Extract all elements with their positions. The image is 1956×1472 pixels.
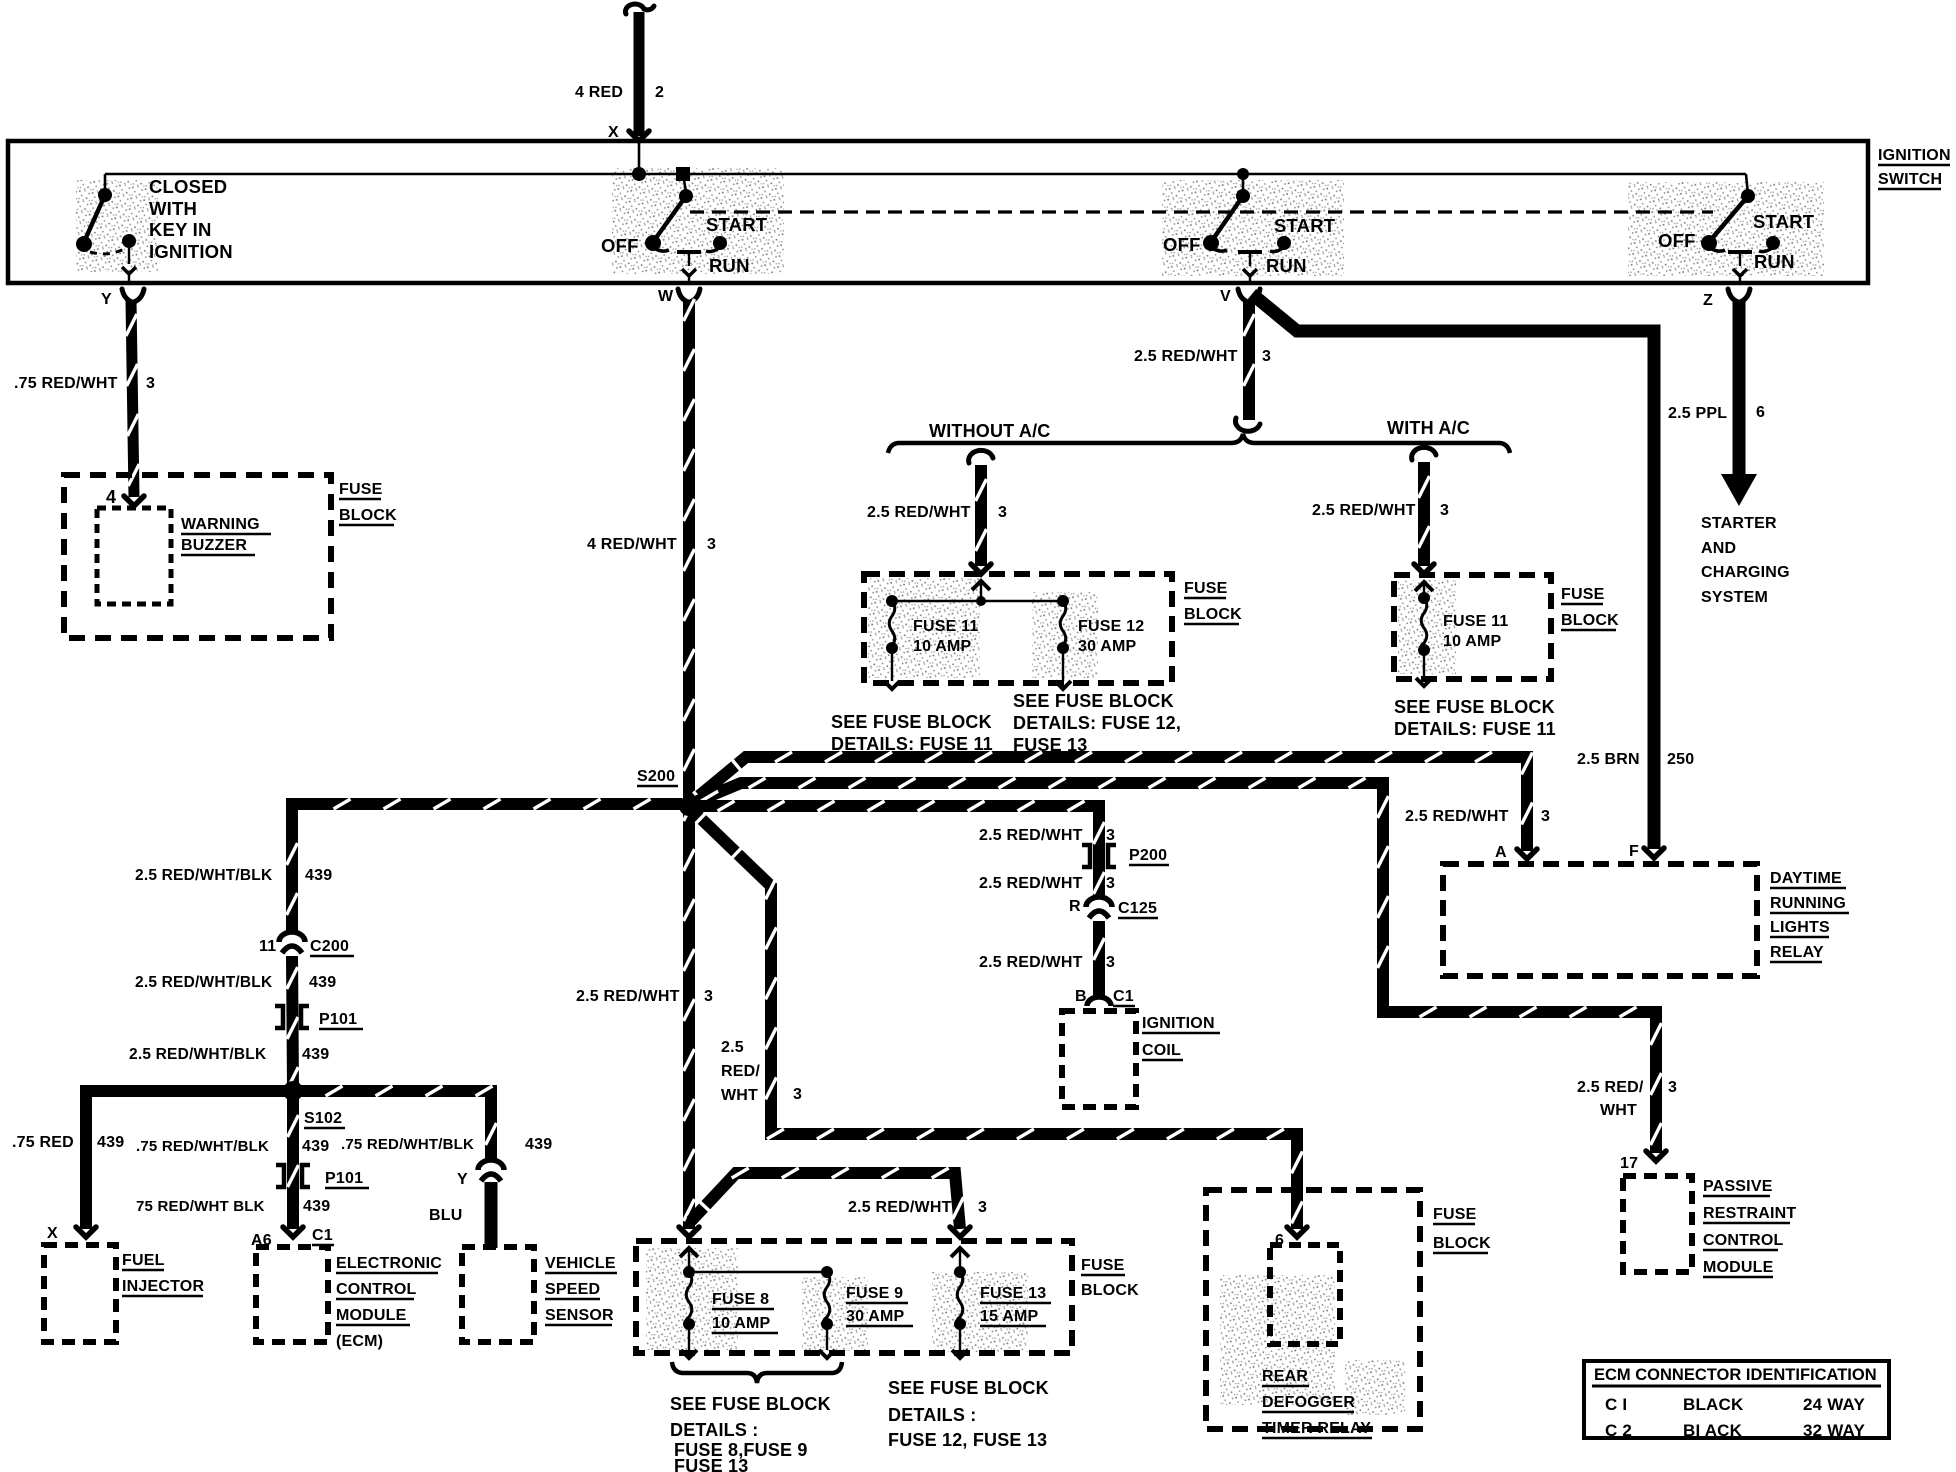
svg-text:2.5 RED/WHT/BLK: 2.5 RED/WHT/BLK [129,1046,267,1063]
svg-text:3: 3 [978,1199,987,1216]
svg-text:BLU: BLU [429,1207,462,1224]
ignition switch wafer: pivot [1236,189,1250,203]
contact RUN output [1238,250,1262,254]
svg-text:X: X [608,124,619,141]
wire 2.5 RED/WHT without A/C to fuse block [969,450,993,463]
underbrace fuses 8 and 9 [672,1362,842,1383]
svg-text:FUSE: FUSE [1081,1257,1125,1274]
switch arm to OFF [653,196,686,242]
svg-text:2.5 RED/WHT: 2.5 RED/WHT [1405,808,1509,825]
svg-text:.75 RED: .75 RED [12,1134,74,1151]
svg-text:439: 439 [302,1138,329,1155]
wire BLU to vehicle speed sensor [485,1182,498,1248]
ignition coil box [1062,1011,1136,1107]
svg-text:CONTROL: CONTROL [1703,1232,1784,1249]
svg-text:TIMER RELAY: TIMER RELAY [1262,1420,1371,1437]
connector C125 pin R [1086,897,1112,907]
svg-text:10 AMP: 10 AMP [1443,633,1502,650]
svg-text:DETAILS :: DETAILS : [670,1420,758,1440]
wire 4 RED (battery feed) into X [634,12,645,136]
svg-text:WHT: WHT [1600,1102,1637,1119]
svg-text:BLACK: BLACK [1683,1395,1744,1414]
svg-text:4: 4 [106,487,116,507]
svg-text:IGNITION: IGNITION [149,241,233,262]
terminal W [678,289,700,302]
switch arm to OFF [1709,196,1748,242]
svg-text:Y: Y [457,1171,468,1188]
svg-text:SEE FUSE BLOCK: SEE FUSE BLOCK [888,1378,1049,1398]
svg-text:2.5 RED/WHT: 2.5 RED/WHT [1312,502,1416,519]
svg-text:3: 3 [998,504,1007,521]
svg-text:WITH A/C: WITH A/C [1387,418,1470,438]
svg-text:15 AMP: 15 AMP [980,1308,1039,1325]
ignition switch box [8,141,1868,283]
fuse block (rear defogger) dashed box [1206,1190,1420,1429]
svg-text:2: 2 [655,84,664,101]
svg-text:ECM CONNECTOR IDENTIFICATION: ECM CONNECTOR IDENTIFICATION [1594,1366,1877,1384]
connector P101 [275,1006,283,1028]
electronic control module box [256,1247,328,1342]
svg-text:2.5: 2.5 [721,1039,744,1056]
passive restraint control module box [1623,1176,1692,1272]
rear defogger timer relay element box [1270,1245,1340,1344]
svg-text:2.5 RED/WHT: 2.5 RED/WHT [979,827,1083,844]
svg-text:R: R [1069,898,1081,915]
svg-text:250: 250 [1667,751,1694,768]
connector P101 (lower) [276,1165,284,1187]
terminal A of DRL relay [1517,849,1537,859]
svg-text:OFF: OFF [601,235,639,256]
wire 2.5 BRN from V to daytime running lights relay pin F [1252,294,1654,849]
svg-text:3: 3 [1106,827,1115,844]
svg-text:4 RED: 4 RED [575,84,623,101]
svg-text:WARNING: WARNING [181,516,260,533]
key-in switch (closed with key in ignition) [98,188,112,202]
svg-text:X: X [47,1225,58,1242]
svg-text:32 WAY: 32 WAY [1803,1421,1865,1440]
ECM connector identification table [1584,1361,1889,1438]
vehicle speed sensor box [462,1247,534,1342]
svg-text:SPEED: SPEED [545,1281,600,1298]
svg-text:OFF: OFF [1163,234,1201,255]
svg-text:.75 RED/WHT/BLK: .75 RED/WHT/BLK [341,1136,474,1153]
terminal V [1238,289,1260,302]
svg-text:2.5 BRN: 2.5 BRN [1577,751,1640,768]
svg-text:P101: P101 [319,1011,357,1028]
contact RUN output [1728,250,1752,254]
svg-text:OFF: OFF [1658,230,1696,251]
svg-text:S102: S102 [304,1110,342,1127]
svg-text:FUSE 11: FUSE 11 [1443,613,1508,630]
wire .75 RED/WHT/BLK from S102 to vehicle speed sensor [299,1091,491,1160]
svg-text:2.5 RED/: 2.5 RED/ [1577,1079,1644,1096]
fuse 12 (30 amp) [1057,595,1069,607]
svg-text:FUSE 12: FUSE 12 [1078,618,1144,635]
svg-text:3: 3 [146,375,155,392]
svg-text:C 2: C 2 [1605,1421,1632,1440]
svg-text:LIGHTS: LIGHTS [1770,919,1830,936]
fuel injector box [44,1245,116,1342]
svg-text:DETAILS: FUSE 12,: DETAILS: FUSE 12, [1013,713,1181,733]
svg-text:2.5 RED/WHT/BLK: 2.5 RED/WHT/BLK [135,867,273,884]
svg-text:.75 RED/WHT: .75 RED/WHT [14,375,118,392]
ignition switch wafer: pivot [1741,189,1755,203]
svg-text:INJECTOR: INJECTOR [122,1278,204,1295]
svg-text:6: 6 [1756,404,1765,421]
svg-text:3: 3 [1668,1079,1677,1096]
svg-text:3: 3 [707,536,716,553]
terminal Y [122,289,144,302]
svg-text:BLOCK: BLOCK [1081,1282,1139,1299]
svg-text:FUSE 9: FUSE 9 [846,1285,903,1302]
svg-text:CLOSED: CLOSED [149,176,227,197]
svg-text:B: B [1075,988,1087,1005]
svg-text:SEE FUSE BLOCK: SEE FUSE BLOCK [1394,697,1555,717]
wire branch S200 to rear defogger timer relay [692,810,1297,1229]
svg-text:AND: AND [1701,540,1736,557]
svg-text:CONTROL: CONTROL [336,1281,417,1298]
internal bus wire [105,173,1746,176]
svg-text:2.5 RED/WHT: 2.5 RED/WHT [979,875,1083,892]
terminal Z [1728,289,1750,302]
connector C200 pin 11 [279,932,305,942]
svg-text:439: 439 [525,1136,552,1153]
wire .75 RED to fuel injector [86,1091,287,1229]
switch arm to OFF [1211,196,1243,242]
warning buzzer element box [97,508,171,604]
svg-text:FUSE 12, FUSE 13: FUSE 12, FUSE 13 [888,1430,1047,1450]
svg-text:ELECTRONIC: ELECTRONIC [336,1255,442,1272]
svg-text:2.5 PPL: 2.5 PPL [1668,405,1727,422]
fuse 11 (10 amp) with A/C [1418,592,1430,604]
svg-text:FUSE: FUSE [1433,1206,1477,1223]
svg-text:FUEL: FUEL [122,1252,165,1269]
svg-text:3: 3 [1106,954,1115,971]
svg-text:439: 439 [302,1046,329,1063]
fuse block (fuse 11 / fuse 12) dashed box [864,574,1172,683]
svg-text:RED/: RED/ [721,1063,760,1080]
svg-text:W: W [658,288,674,305]
svg-text:3: 3 [1440,502,1449,519]
svg-text:DEFOGGER: DEFOGGER [1262,1394,1355,1411]
terminal 4 at fuse block / warning buzzer [124,496,144,506]
svg-text:24 WAY: 24 WAY [1803,1395,1865,1414]
wire branch S200 to DRL relay pin A (2.5 RED/WHT) [694,757,1527,851]
svg-text:30 AMP: 30 AMP [846,1308,905,1325]
wire 4 RED/WHT from W to S200 and fuse block [683,300,695,1229]
wire 439 between C200 and P101 [292,956,293,1087]
svg-text:RUN: RUN [709,255,750,276]
svg-text:RELAY: RELAY [1770,944,1824,961]
svg-text:FUSE 11: FUSE 11 [913,618,978,635]
svg-text:Z: Z [1703,292,1713,309]
svg-text:MODULE: MODULE [1703,1259,1774,1276]
contact START [1277,236,1291,250]
svg-text:WITHOUT A/C: WITHOUT A/C [929,421,1051,441]
svg-text:C200: C200 [310,938,349,955]
svg-text:CHARGING: CHARGING [1701,564,1790,581]
svg-text:4 RED/WHT: 4 RED/WHT [587,536,677,553]
svg-text:439: 439 [309,974,336,991]
svg-text:11: 11 [259,938,276,955]
svg-text:3: 3 [793,1086,802,1103]
svg-text:FUSE: FUSE [339,481,383,498]
terminal 17 of passive restraint control module [1646,1151,1666,1161]
terminal into fuse 13 [950,1227,970,1237]
terminal F of DRL relay [1644,848,1664,858]
svg-text:IGNITION: IGNITION [1878,147,1951,164]
node V stub on bus [1237,168,1249,180]
daytime running lights relay box [1443,864,1757,976]
contact OFF [1701,235,1717,251]
svg-text:BLOCK: BLOCK [1433,1235,1491,1252]
svg-text:START: START [1274,215,1336,236]
svg-text:BLOCK: BLOCK [1561,612,1619,629]
svg-text:2.5 RED/WHT: 2.5 RED/WHT [1134,348,1238,365]
svg-text:SYSTEM: SYSTEM [1701,589,1768,606]
fuse 11 (10 amp) [886,595,898,607]
svg-text:COIL: COIL [1142,1042,1181,1059]
svg-text:SEE FUSE BLOCK: SEE FUSE BLOCK [831,712,992,732]
svg-text:SENSOR: SENSOR [545,1307,614,1324]
wire 2.5 RED/WHT from V (to A/C splice) [1243,300,1255,420]
fuse 9 (30 amp) [821,1266,833,1278]
svg-text:3: 3 [1541,808,1550,825]
wire .75 RED/WHT/BLK from S102 to ECM [287,1096,299,1229]
svg-text:BLOCK: BLOCK [339,507,397,524]
svg-text:DAYTIME: DAYTIME [1770,870,1842,887]
svg-text:WITH: WITH [149,198,197,219]
splice S200 [679,796,699,816]
svg-text:C I: C I [1605,1395,1627,1414]
svg-text:DETAILS: FUSE 11: DETAILS: FUSE 11 [1394,719,1556,739]
svg-text:SEE FUSE BLOCK: SEE FUSE BLOCK [670,1394,831,1414]
svg-text:10 AMP: 10 AMP [712,1315,771,1332]
svg-text:C1: C1 [1113,988,1134,1005]
fuse block (with A/C, fuse 11) dashed box [1394,575,1551,679]
svg-text:START: START [706,214,768,235]
svg-text:FUSE: FUSE [1184,580,1228,597]
contact START [1766,236,1780,250]
svg-text:V: V [1220,288,1231,305]
svg-text:REAR: REAR [1262,1368,1308,1385]
contact OFF [645,235,661,251]
fuse block (fuse 8 / 9 / 13) dashed box [636,1241,1072,1353]
wire 2.5 PPL to starter [1733,300,1746,478]
svg-text:DETAILS :: DETAILS : [888,1405,976,1425]
svg-text:S200: S200 [637,768,675,785]
connector P200 [1082,845,1090,867]
svg-text:2.5 RED/WHT: 2.5 RED/WHT [867,504,971,521]
svg-text:FUSE: FUSE [1561,586,1605,603]
contact START [713,236,727,250]
wire branch S200 to passive restraint module [693,783,1656,1153]
terminal B C1 of ignition coil [1087,997,1111,1006]
svg-text:(ECM): (ECM) [336,1333,383,1350]
wire branch S200 to ignition coil (2.5 RED/WHT) [696,806,1099,897]
svg-text:BUZZER: BUZZER [181,537,247,554]
svg-text:3: 3 [704,988,713,1005]
svg-text:FUSE 13: FUSE 13 [674,1456,748,1472]
connector Y [478,1160,504,1170]
svg-text:RUN: RUN [1266,255,1307,276]
svg-text:.75 RED/WHT/BLK: .75 RED/WHT/BLK [136,1138,269,1155]
ignition switch wafer: pivot [679,189,693,203]
wire branch to fuse 13 (2.5 RED/WHT) [691,1173,960,1229]
svg-text:2.5 RED/WHT: 2.5 RED/WHT [979,954,1083,971]
svg-text:RUN: RUN [1754,251,1795,272]
svg-text:A: A [1495,844,1507,861]
svg-text:MODULE: MODULE [336,1307,407,1324]
mechanical linkage dashed line [690,210,1713,213]
svg-text:SEE FUSE BLOCK: SEE FUSE BLOCK [1013,691,1174,711]
overbrace splice WITHOUT A/C / WITH A/C [888,434,1510,453]
svg-text:FUSE 8: FUSE 8 [712,1291,769,1308]
fuse block (warning buzzer) dashed box [64,475,331,638]
svg-text:IGNITION: IGNITION [1142,1015,1215,1032]
terminal X into ignition switch [629,131,649,141]
splice S102 [283,1081,303,1101]
svg-text:STARTER: STARTER [1701,515,1777,532]
svg-text:439: 439 [303,1198,330,1215]
terminal A6 C1 of ECM [283,1227,303,1237]
svg-text:SWITCH: SWITCH [1878,171,1942,188]
terminal 6 of rear defogger timer relay [1287,1227,1307,1237]
terminal into fuse 8 [679,1227,699,1237]
node X junction on bus [632,167,646,181]
fuse 13 (15 amp) [954,1266,966,1278]
svg-text:Y: Y [101,291,112,308]
svg-text:F: F [1629,843,1639,860]
svg-text:30 AMP: 30 AMP [1078,638,1137,655]
svg-text:C125: C125 [1118,900,1157,917]
svg-text:WHT: WHT [721,1087,758,1104]
svg-text:FUSE 13: FUSE 13 [980,1285,1046,1302]
svg-text:75 RED/WHT BLK: 75 RED/WHT BLK [136,1198,265,1215]
svg-text:3: 3 [1106,875,1115,892]
svg-text:RUNNING: RUNNING [1770,895,1846,912]
wire .75 RED/WHT to warning buzzer [131,300,134,497]
wire branch S200 to C200 (left) [292,804,682,932]
svg-text:P200: P200 [1129,847,1167,864]
svg-text:17: 17 [1620,1155,1638,1172]
contact RUN output [677,250,701,254]
svg-text:BI ACK: BI ACK [1683,1421,1743,1440]
contact OFF [1203,235,1219,251]
svg-text:P101: P101 [325,1170,363,1187]
svg-text:3: 3 [1262,348,1271,365]
fuse 8 (10 amp) [683,1266,695,1278]
svg-text:C1: C1 [312,1227,333,1244]
svg-text:PASSIVE: PASSIVE [1703,1178,1773,1195]
svg-text:BLOCK: BLOCK [1184,606,1242,623]
svg-text:VEHICLE: VEHICLE [545,1255,616,1272]
svg-text:439: 439 [97,1134,124,1151]
svg-text:START: START [1753,211,1815,232]
svg-text:KEY IN: KEY IN [149,219,212,240]
terminal X of fuel injector [76,1227,96,1237]
svg-text:10 AMP: 10 AMP [913,638,972,655]
svg-text:439: 439 [305,867,332,884]
svg-text:2.5 RED/WHT: 2.5 RED/WHT [576,988,680,1005]
svg-text:RESTRAINT: RESTRAINT [1703,1205,1796,1222]
svg-text:2.5 RED/WHT: 2.5 RED/WHT [848,1199,952,1216]
wire 2.5 RED/WHT with A/C to fuse block [1412,447,1436,460]
svg-text:2.5 RED/WHT/BLK: 2.5 RED/WHT/BLK [135,974,273,991]
